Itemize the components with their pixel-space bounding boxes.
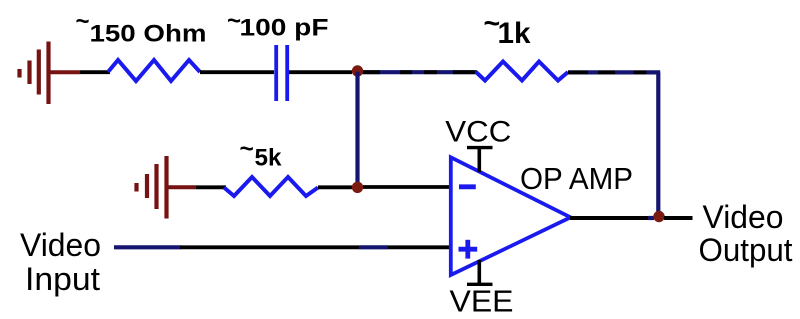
op-amp U1 triangle <box>451 157 571 275</box>
node A junction dot <box>352 65 363 76</box>
wire node A down to node B navy vertical <box>355 72 359 184</box>
wire R3 to top right corner navy base <box>568 70 660 74</box>
wire C1 to node A <box>289 70 352 74</box>
wire ground G2 to R2 maroon segment <box>167 185 197 189</box>
resistor R1 ~150 Ohm <box>108 60 200 81</box>
svg-text:Input: Input <box>25 261 100 297</box>
op-amp minus sign <box>459 184 476 189</box>
VEE terminal bar <box>467 283 493 286</box>
VEE terminal stub <box>477 260 481 284</box>
ground G2 (middle left, maroon bars) <box>137 156 167 219</box>
svg-text:Video: Video <box>703 199 784 235</box>
svg-text:150 Ohm: 150 Ohm <box>90 21 207 48</box>
VCC terminal stub <box>477 148 481 172</box>
wire node B to op-amp inverting input <box>363 185 450 189</box>
svg-text:1k: 1k <box>498 17 531 50</box>
wire top right corner down to output node navy <box>656 72 660 212</box>
wire R1 to C1 <box>200 70 274 74</box>
svg-text:VEE: VEE <box>450 285 514 319</box>
wire node A to R3 black segment 4 <box>453 70 475 74</box>
wire node A to R3 black segment 3 <box>424 70 437 74</box>
svg-text:VCC: VCC <box>445 116 511 149</box>
svg-text:100 pF: 100 pF <box>240 15 329 42</box>
svg-text:OP AMP: OP AMP <box>520 162 633 196</box>
svg-text:5k: 5k <box>255 144 282 171</box>
wire video input to op-amp + input black <box>388 245 450 249</box>
wire R2 to node B <box>318 185 352 189</box>
op-amp plus sign <box>459 240 478 259</box>
wire R3 to corner black segment 3 <box>634 71 647 75</box>
wire node A to R3 navy base <box>357 70 477 74</box>
wire video input navy segment <box>114 245 181 249</box>
wire ground G1 to R1 black segment <box>80 70 110 74</box>
wire op-amp output to output node black <box>570 216 650 220</box>
svg-text:Video: Video <box>20 227 101 263</box>
svg-text:Output: Output <box>699 232 793 268</box>
wire output node navy stub <box>648 216 654 220</box>
wire R3 to corner black segment 2 <box>598 71 615 75</box>
node B junction dot <box>352 182 363 193</box>
wire node A to R3 black segment 2 <box>400 70 412 74</box>
VCC terminal bar <box>467 146 493 149</box>
output node junction dot <box>653 211 664 222</box>
capacitor C1 plates <box>276 45 287 101</box>
resistor R3 ~1k feedback <box>476 62 568 81</box>
resistor R2 ~5k <box>224 177 318 196</box>
wire node A to R3 black segment 1 <box>363 70 380 74</box>
wire R3 to corner black segment 1 <box>568 71 588 75</box>
svg-text:~: ~ <box>240 136 254 163</box>
ground G1 (top left, maroon bars) <box>20 42 49 105</box>
wire video input navy segment 2 <box>359 245 388 249</box>
wire output node to Video Output label <box>664 216 693 220</box>
wire ground G1 to R1 maroon segment <box>49 70 81 74</box>
wire video input black middle <box>180 245 359 249</box>
wire ground G2 to R2 black segment <box>196 185 226 189</box>
svg-text:~: ~ <box>76 8 90 35</box>
